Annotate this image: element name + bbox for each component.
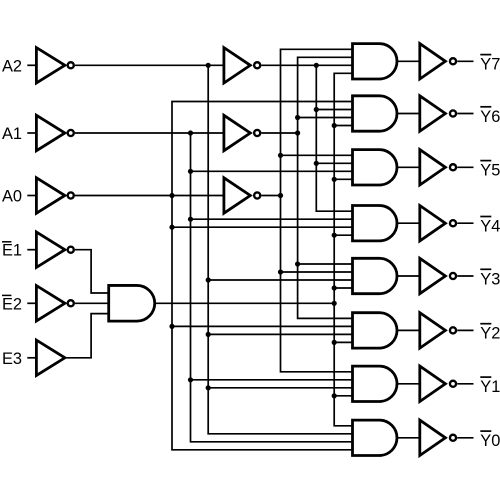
svg-text:E3: E3: [2, 350, 22, 368]
wire AND Y4 output to inverter: [397, 222, 420, 224]
junction A2 true bus tap: [314, 63, 319, 68]
wire Y7 inverter bubble to label: [457, 60, 473, 62]
wire AND Y5 output to inverter: [397, 166, 420, 168]
inverter A1 second stage: [224, 115, 250, 150]
AND gate Y0: [353, 420, 397, 455]
AND gate Y6: [353, 96, 397, 131]
wire Y5 inverter bubble to label: [457, 166, 473, 168]
wire Y2 inverter bubble to label: [457, 329, 473, 331]
junction A1 to Y6: [295, 115, 300, 120]
junction /A2 to Y1: [206, 385, 211, 390]
wire AND Y1 output to inverter: [397, 383, 420, 385]
output inverter Y1: [420, 366, 446, 401]
bubble E2 inverter: [68, 300, 74, 306]
bubble output inverter Y1: [450, 381, 456, 387]
junction E row to E bus: [332, 301, 337, 306]
svg-text:Y4: Y4: [480, 218, 500, 236]
wire A0 true vertical bus from Y7 input 1 turn down to Y1 input 1 turn: [281, 49, 353, 372]
wire Y3 inverter bubble to label: [457, 275, 473, 277]
bubble output inverter Y4: [450, 220, 456, 226]
inverter A2 input stage: [36, 48, 65, 83]
junction /A1 to Y4: [188, 217, 193, 222]
wire A1 input stub: [27, 132, 36, 134]
junction /A1 to Y5: [188, 169, 193, 174]
inverter A0 second stage: [224, 178, 250, 213]
wire E branch to AND gate Y4 input 4: [334, 234, 352, 236]
wire E branch to AND gate Y1 input 4: [334, 395, 352, 397]
AND gate Y4: [353, 206, 397, 241]
overbar for Y1: [480, 376, 491, 378]
wire A1 true vertical bus from Y7 input 2 turn down to Y2 input 1 turn: [298, 57, 353, 318]
wire /A2 branch to AND gate Y1 input 3: [208, 387, 352, 389]
wire E2 inverter output to enable AND input 2: [75, 302, 109, 304]
wire A2 true branch to AND gate Y5 input 2: [316, 162, 352, 164]
output inverter Y3: [420, 258, 446, 293]
wire E enable row: AND output to E bus: [155, 302, 334, 304]
junction /A1 to Y1: [188, 377, 193, 382]
wire AND Y0 output to inverter: [397, 437, 420, 439]
output inverter Y2: [420, 313, 446, 348]
buffer E3 input stage: [36, 340, 65, 375]
wire /A1 branch to AND gate Y4 input 2: [191, 218, 353, 220]
wire A2 true branch to AND gate Y6 input 2: [316, 109, 352, 111]
wire /A2 vertical bus with turn into AND gate Y0 input 2: [208, 65, 352, 434]
wire A1 true branch to AND gate Y3 input 1: [298, 263, 353, 265]
junction E to Y1: [332, 393, 337, 398]
output inverter Y0: [420, 420, 446, 455]
AND gate Y7: [353, 44, 397, 79]
svg-text:Y2: Y2: [480, 325, 500, 343]
bubble A2 second stage: [254, 62, 260, 68]
overbar for E1: [2, 241, 11, 243]
svg-text:E2: E2: [2, 295, 22, 313]
wire /A1 branch to AND gate Y5 input 3: [191, 170, 353, 172]
junction /A0 to Y4: [169, 225, 174, 230]
junction A0 true bus tap: [278, 193, 283, 198]
inverter A0 input stage: [36, 178, 65, 213]
AND gate Y1: [353, 366, 397, 401]
overbar for Y4: [480, 216, 491, 218]
junction /A0 tap on A0 row: [169, 193, 174, 198]
wire /A0 branch to AND gate Y4 input 3: [172, 226, 353, 228]
svg-text:A1: A1: [2, 125, 22, 143]
output inverter Y5: [420, 150, 446, 185]
svg-text:Y0: Y0: [480, 432, 500, 450]
bubble output inverter Y3: [450, 273, 456, 279]
wire /A2 branch to AND gate Y3 input 3: [208, 279, 352, 281]
svg-text:Y5: Y5: [480, 162, 500, 180]
wire E branch to AND gate Y5 input 4: [334, 178, 352, 180]
junction E to Y6: [332, 123, 337, 128]
junction A2 to Y5: [314, 161, 319, 166]
svg-text:Y3: Y3: [480, 270, 500, 288]
svg-text:A2: A2: [2, 57, 22, 75]
svg-text:Y6: Y6: [480, 108, 500, 126]
junction /A0 to Y2: [169, 324, 174, 329]
wire A0 input stub: [27, 195, 36, 197]
wire E3 buffer output up to enable AND input 3: [65, 314, 109, 358]
bubble A1 second stage: [254, 130, 260, 136]
wire E1 input stub: [27, 249, 36, 251]
overbar for Y0: [480, 430, 491, 432]
junction E to Y2: [332, 340, 337, 345]
wire AND Y2 output to inverter: [397, 329, 420, 331]
wire E branch to AND gate Y3 input 4: [334, 287, 352, 289]
junction A0 to Y5: [278, 153, 283, 158]
wire E3 input stub: [27, 357, 36, 359]
wire A0 true branch to AND gate Y3 input 2: [281, 271, 353, 273]
junction A1 true bus tap: [295, 130, 300, 135]
wire AND Y6 output to inverter: [397, 113, 420, 115]
junction /A2 to Y2: [206, 332, 211, 337]
inverter A2 second stage: [224, 48, 250, 83]
wire Y0 inverter bubble to label: [457, 437, 473, 439]
wire E2 input stub: [27, 302, 36, 304]
junction A0 to Y3: [278, 269, 283, 274]
wire A0 row: inverter output to 2nd inverter: [75, 195, 224, 197]
bubble output inverter Y6: [450, 110, 456, 116]
wire A2 true vertical bus down to Y4 input 1 turn: [316, 65, 352, 211]
svg-text:A0: A0: [2, 188, 22, 206]
wire E branch to AND gate Y6 input 4: [334, 125, 352, 127]
bubble output inverter Y7: [450, 58, 456, 64]
AND gate Y5: [353, 150, 397, 185]
junction A2 to Y6: [314, 107, 319, 112]
junction /A2 tap on A2 row: [206, 63, 211, 68]
bubble output inverter Y0: [450, 435, 456, 441]
wire E1 inverter output down to enable AND input 1: [75, 250, 109, 293]
overbar for Y2: [480, 323, 491, 325]
wire A0 true: 2nd inverter output to A0 bus: [261, 195, 280, 197]
wire A0 true branch to AND gate Y5 input 1: [281, 154, 353, 156]
svg-text:Y7: Y7: [480, 56, 500, 74]
wire A2 row: inverter output to 2nd inverter: [75, 64, 224, 66]
overbar for Y5: [480, 160, 491, 162]
wire Y1 inverter bubble to label: [457, 383, 473, 385]
overbar for Y7: [480, 54, 491, 56]
junction E to Y5: [332, 177, 337, 182]
wire /A1 branch to AND gate Y1 input 2: [191, 379, 353, 381]
junction /A1 tap on A1 row: [188, 130, 193, 135]
wire A2 input stub: [27, 64, 36, 66]
bubble A0 second stage: [254, 192, 260, 198]
wire /A0 branch to AND gate Y2 input 2: [172, 325, 353, 327]
AND gate Y3: [353, 258, 398, 293]
overbar for E2: [2, 294, 11, 296]
overbar for Y3: [480, 268, 491, 270]
junction E to Y3: [332, 285, 337, 290]
output inverter Y6: [420, 96, 446, 131]
AND gate Y2: [353, 313, 397, 348]
junction A1 to Y3: [295, 261, 300, 266]
overbar for Y6: [480, 106, 491, 108]
inverter E1 input stage: [36, 232, 65, 267]
wire Y6 inverter bubble to label: [457, 113, 473, 115]
junction E to Y4: [332, 233, 337, 238]
wire /A0 vertical bus from Y6 input 1 turn down to Y0 input 4 turn: [172, 102, 353, 450]
wire /A1 vertical bus with turn into AND gate Y0 input 3: [191, 133, 353, 442]
bubble output inverter Y5: [450, 164, 456, 170]
wire A1 true: 2nd inverter output to A1 bus: [261, 132, 297, 134]
wire A1 row: inverter output to 2nd inverter: [75, 132, 224, 134]
bubble A0 inverter: [68, 192, 74, 198]
svg-text:Y1: Y1: [480, 378, 500, 396]
wire A1 true branch to AND gate Y6 input 3: [298, 117, 353, 119]
junction /A2 to Y3: [206, 277, 211, 282]
bubble A2 inverter: [68, 62, 74, 68]
wire /A2 branch to AND gate Y2 input 3: [208, 333, 352, 335]
bubble A1 inverter: [68, 130, 74, 136]
inverter A1 input stage: [36, 115, 65, 150]
wire A2 true: 2nd inverter output to AND gate Y7 input 3: [261, 64, 352, 66]
bubble output inverter Y2: [450, 327, 456, 333]
svg-text:E1: E1: [2, 242, 22, 260]
inverter E2 input stage: [36, 286, 65, 321]
output inverter Y4: [420, 206, 446, 241]
wire Y4 inverter bubble to label: [457, 222, 473, 224]
AND gate enable (E1·E2·E3): [109, 285, 155, 321]
bubble E1 inverter: [68, 247, 74, 253]
wire AND Y7 output to inverter: [397, 60, 420, 62]
output inverter Y7: [420, 44, 446, 79]
wire E vertical bus from Y7 input 4 turn down to Y0 input 1 turn: [334, 73, 352, 426]
wire E branch to AND gate Y2 input 4: [334, 341, 352, 343]
wire AND Y3 output to inverter: [397, 275, 420, 277]
